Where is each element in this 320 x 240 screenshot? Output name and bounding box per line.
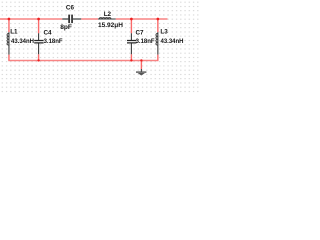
wire bottom bus [8,60,158,62]
wire top rail segment node1 to C6 [9,18,62,20]
node dot top L1 [8,18,11,21]
svg-text:43.34nH: 43.34nH [161,39,184,45]
wire C4 branch [38,19,40,61]
svg-text:C4: C4 [44,30,53,37]
svg-text:L1: L1 [10,29,18,36]
capacitor C7 [130,33,132,54]
node dot top C4 [37,18,40,21]
node dot top L3 [157,18,160,21]
inductor L3 [157,32,159,54]
node dot bottom ground [140,59,142,61]
node dot bottom C4 [37,59,39,61]
svg-text:43.34nH: 43.34nH [11,39,34,45]
inductor L1 [8,32,10,54]
wire L1 branch [8,19,10,61]
ground [136,69,146,76]
node dot top C7 [130,18,133,21]
capacitor C6 (series, top rail) [62,15,81,24]
wire top rail left stub [0,18,9,20]
svg-text:L3: L3 [160,29,168,36]
svg-text:3.18nF: 3.18nF [44,39,63,45]
wire L3 branch [157,19,159,61]
wire top rail segment C6 to L2 [81,18,98,20]
node dot bottom C7 [130,59,132,61]
wire ground stub [140,61,142,70]
svg-text:15.92μH: 15.92μH [98,22,123,29]
wire C7 branch [130,19,132,61]
svg-text:L2: L2 [104,11,112,18]
svg-text:C7: C7 [136,30,145,37]
wire top rail segment L2 to right end [116,18,168,20]
svg-text:C6: C6 [66,5,75,12]
svg-text:8pF: 8pF [60,24,72,31]
inductor L2 (series, top rail) [98,18,116,20]
svg-text:3.18nF: 3.18nF [136,39,155,45]
capacitor C4 [38,33,40,54]
